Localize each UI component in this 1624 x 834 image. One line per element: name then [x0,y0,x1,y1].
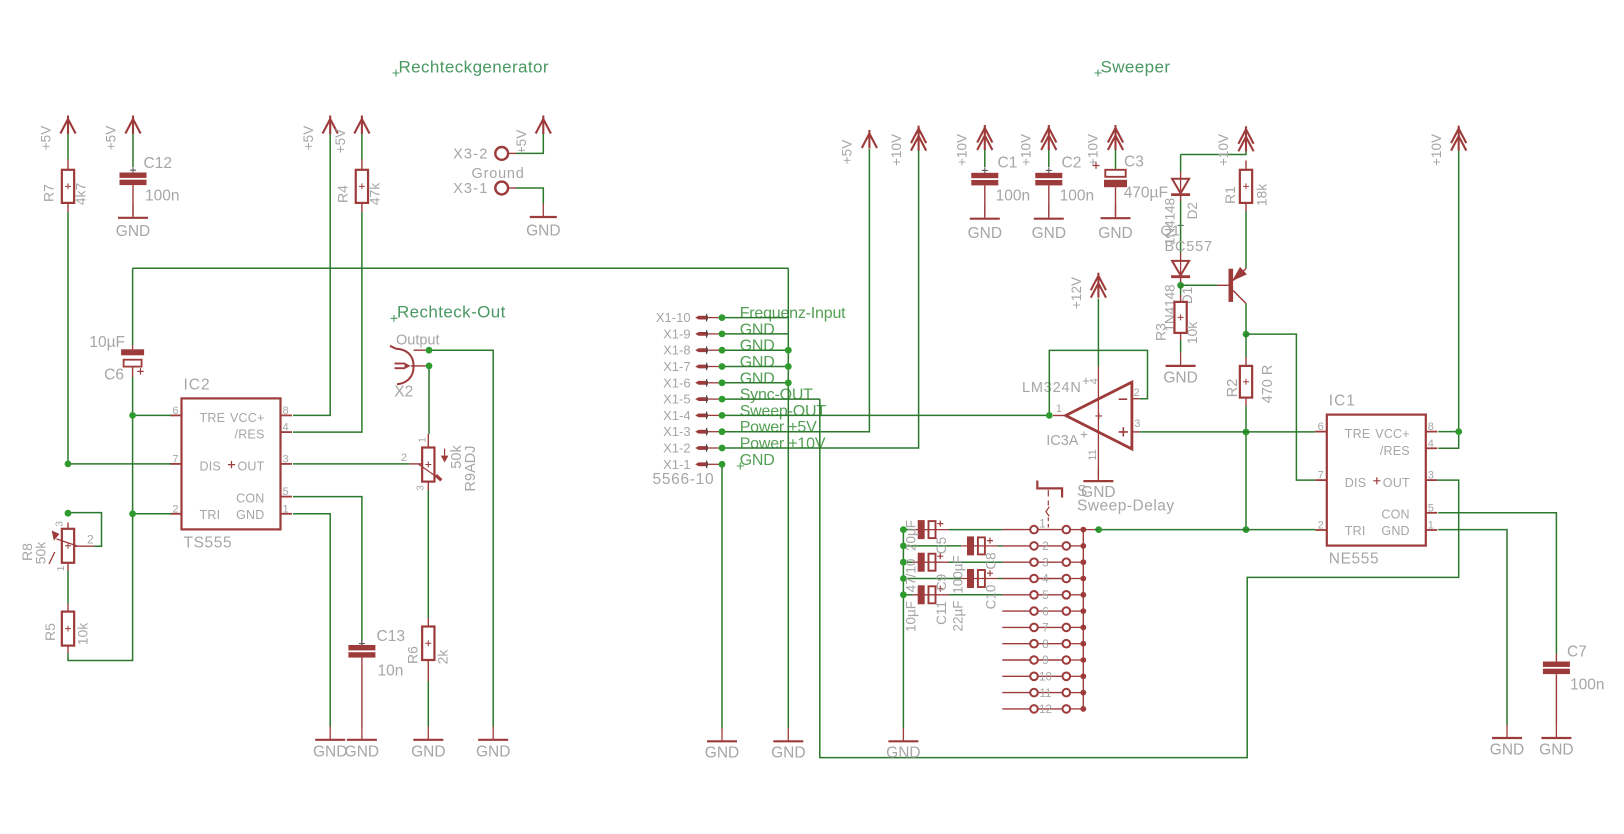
capacitor C8 body [961,545,998,547]
header pin 11R [1063,689,1071,697]
wire X1-1 GND wire [721,464,723,728]
header pin 6L [1030,607,1038,615]
wire IC2-GND wire [293,514,330,727]
wire R7 to DIS node [67,212,69,464]
header pin 9R [1063,656,1071,664]
wire D1 node to Q1 base [1181,284,1217,286]
svg-text:NE555: NE555 [1329,551,1379,568]
C6 plus mark [137,368,143,374]
header pin 10R [1063,673,1071,681]
capacitor C6 plates [121,349,144,355]
wire Sync-OUT long path [820,399,1459,757]
wire TRE-TRI vertical [132,415,134,513]
node X1-5 node [719,396,726,403]
resistor R6 body [422,627,434,661]
svg-text:8: 8 [1042,639,1048,651]
svg-text:11: 11 [1040,688,1052,700]
resistor R5 body [62,612,74,646]
svg-text:OUT: OUT [1383,476,1410,490]
svg-text:2: 2 [1134,387,1140,399]
power +10V symbol P+10V-1 [911,126,926,151]
svg-text:GND: GND [476,744,510,761]
IC IC1 pin names [1345,427,1410,538]
svg-text:10n: 10n [378,663,404,680]
svg-text:10µF: 10µF [904,601,919,632]
svg-text:7: 7 [172,453,178,465]
node X2 tip node [426,347,433,354]
node R8 wiper node [65,510,72,517]
svg-text:10: 10 [1039,672,1052,684]
ground symbol GND-X3 [542,204,544,218]
ground symbol GND-X1bus [787,728,789,742]
svg-text:5: 5 [283,486,289,498]
svg-text:10µF: 10µF [89,334,125,351]
svg-text:TS555: TS555 [184,534,233,551]
header pin 7L lead [1002,626,1030,628]
svg-text:470 R: 470 R [1260,365,1276,404]
capacitor C1 plates [971,173,998,178]
C1 pin cross [982,167,988,173]
power +10V symbol P+10V-IC1 [1451,126,1466,151]
wire R2node to IC1 pin7 [1246,334,1315,480]
opamp minus [1119,398,1128,400]
header pin 2L lead [1002,545,1030,547]
header pin 5L lead [1002,594,1030,596]
header pin 5R [1063,591,1071,599]
label cross Rechteck-Out [391,315,398,322]
node sweep node B [1243,526,1250,533]
capacitor C9 body [913,561,950,563]
header pin 8L lead [1002,643,1030,645]
header pin 5R lead [1070,594,1083,596]
ground symbol GND-C12 [132,204,134,218]
ground symbol GND-C3 [1115,205,1117,219]
header row 10 link [1038,675,1063,677]
svg-text:6: 6 [1318,421,1324,433]
C6 bottom pin [132,367,134,377]
header pin 7R [1063,624,1071,632]
power +5V symbol P+5V-5 [536,116,551,135]
power +5V symbol P+5V-2 [125,116,140,135]
resistor R8 body [62,529,74,563]
wire X2 tip to GND wire [429,350,493,727]
svg-text:GND: GND [345,744,379,761]
jumper SJ body [1037,481,1062,498]
svg-text:GND: GND [771,745,805,762]
svg-text:TRI: TRI [200,508,221,522]
ground symbol GND-R6 [427,726,429,740]
svg-text:IC2: IC2 [184,376,211,393]
D1 bottom pin [1180,278,1182,285]
connector pin X1-8 [695,348,708,352]
header row1 red lead [1083,529,1094,531]
node GND bus node X1-7 [785,363,792,370]
connector X3-1 pin [495,182,508,195]
wire RES wire [293,212,362,432]
C5 plus mark [937,521,943,527]
C9 plus mark [937,553,943,559]
svg-text:X1-2: X1-2 [663,441,690,456]
svg-text:C13: C13 [377,628,405,645]
header pin 3R lead [1070,561,1083,563]
wire X1-9 GND wire [722,333,788,335]
X2 sleeve pin [411,365,426,367]
wire R3 to GND [1180,340,1182,353]
R2 bottom pin [1245,398,1247,406]
header row 11 link [1038,692,1063,694]
svg-text:R6: R6 [405,646,421,664]
opamp pin4/11 line [1097,367,1099,479]
header pin 4R lead [1070,578,1083,580]
connector pin X1-5 [695,397,708,401]
opamp pin3 stub [1132,431,1140,433]
svg-text:20µF: 20µF [904,520,919,551]
IC IC2 pin numbers [172,405,288,515]
opamp name cross [1083,378,1089,384]
opamp des cross [1081,431,1087,437]
svg-text:GND: GND [1032,225,1066,242]
header pin 1L lead [1002,529,1030,531]
header pin 3R [1063,558,1071,566]
svg-text:3: 3 [283,453,289,465]
svg-text:GND: GND [740,370,775,387]
svg-text:22µF: 22µF [950,600,965,631]
R8 wiper arrow [49,532,78,564]
svg-text:C6: C6 [104,367,124,384]
wire D1 to R3 [1180,285,1182,295]
svg-text:C8: C8 [983,552,998,569]
svg-text:7: 7 [1318,470,1324,482]
svg-text:GND: GND [236,508,264,522]
wire cap row 1 left [903,529,912,531]
svg-text:9: 9 [1042,655,1048,667]
header pin 9L [1030,656,1038,664]
C13 bottom pin [361,658,363,727]
C7 top pin [1555,654,1557,662]
jumper SJ wiper [1046,490,1049,528]
svg-text:4: 4 [1042,574,1049,586]
svg-text:OUT: OUT [238,460,265,474]
svg-text:Power +10V: Power +10V [740,436,826,453]
ground symbol GND-opamp [1097,468,1099,482]
power +5V symbol P+5V-4 [354,116,369,135]
svg-text:R9ADJ: R9ADJ [463,446,479,492]
node TRI node [129,510,136,517]
header pin 12R lead [1070,708,1083,710]
svg-text:11: 11 [1087,449,1099,460]
IC IC2 pin stubs [170,415,292,513]
power +5V symbol P+5V-3 [323,116,338,135]
capacitor C11 body [913,594,950,596]
header pin 12L lead [1002,708,1030,710]
svg-text:TRE: TRE [1345,427,1371,441]
capacitor C10 body [961,578,998,580]
svg-text:TRE: TRE [200,411,226,425]
svg-text:2: 2 [87,533,94,547]
svg-text:C12: C12 [144,155,172,172]
connector pin X1-4 [695,414,708,418]
connector pin X1-2 [695,446,708,450]
node DIS node [65,461,72,468]
ground symbol GND-X1-1 [721,728,723,742]
svg-text:2: 2 [1318,520,1324,532]
wire VCC wire [293,134,330,415]
svg-text:X1-7: X1-7 [663,359,690,374]
C1 bottom pin [984,185,986,216]
wire +12V to opamp pin4 [1097,299,1099,367]
svg-text:100µF: 100µF [950,555,965,594]
wire cap row 4 right [998,578,1002,580]
svg-text:C1: C1 [998,155,1018,172]
header row 5 link [1038,594,1063,596]
svg-text:6: 6 [172,405,178,417]
title cross Rechteckgenerator [393,70,400,77]
header pin 2R [1063,542,1071,550]
svg-text:100n: 100n [145,188,179,205]
power +12V symbol P+12V [1091,273,1106,298]
C13 top pin [361,641,363,646]
ground symbol GND-C2 [1048,205,1050,219]
svg-text:Sync-OUT: Sync-OUT [740,387,813,404]
svg-text:1: 1 [1056,403,1062,415]
svg-text:4: 4 [283,422,289,434]
header row 1 link [1038,529,1063,531]
ground symbol GND-IC1 [1506,725,1508,739]
header pin 8L [1030,640,1038,648]
R1 bottom pin [1245,203,1247,211]
header pin 3L [1030,558,1038,566]
svg-text:VCC+: VCC+ [230,411,265,425]
node cap bus node 3 [900,559,907,566]
svg-text:D2: D2 [1185,202,1200,219]
wire cap row 4 left [903,578,961,580]
X2 tip pin [414,349,426,351]
node D1-R3 node [1177,282,1184,289]
R2 top pin [1245,358,1247,366]
connector X3-2 pin [495,147,508,160]
svg-text:BC557: BC557 [1165,239,1213,255]
header pin 10R lead [1070,675,1083,677]
svg-text:12: 12 [1039,704,1052,716]
svg-text:2k: 2k [435,649,451,665]
header pin 12L [1030,705,1038,713]
svg-text:C11: C11 [934,601,949,625]
svg-text:C3: C3 [1124,154,1144,171]
wire R9ADJ to R6 [427,490,429,618]
wire Sweep-OUT long wire [722,414,1049,416]
connector pin X1-10 [695,316,708,320]
svg-text:GND: GND [886,745,920,762]
svg-text:47/10: 47/10 [904,559,919,593]
svg-text:8: 8 [283,405,289,417]
power +10V symbol P+10V-C3 [1108,125,1123,150]
op IC IC2 body [182,398,281,529]
wire X2 sleeve to R9ADJ [428,366,430,434]
wire R7 top lead [67,134,69,160]
wire R6 to GND [427,681,429,727]
svg-text:+5V: +5V [38,126,53,150]
svg-text:+10V: +10V [955,134,970,166]
svg-text:4: 4 [1428,438,1434,450]
svg-text:C2: C2 [1062,155,1082,172]
svg-text:5: 5 [1042,590,1048,602]
capacitor C5 body [913,529,950,531]
wire opamp out column [1245,432,1247,530]
wire Sync-OUT wire from X1-5 [722,398,820,400]
wire R8 wiper to DIS column [68,513,102,547]
svg-text:1: 1 [1039,518,1045,530]
svg-text:X1-5: X1-5 [663,392,690,407]
wire R2 top lead [1245,334,1247,357]
header row 8 link [1038,643,1063,645]
wire DIS wire [68,463,171,465]
IC IC1 pin stubs [1315,432,1437,530]
wire C1 top lead [984,150,986,167]
node opamp out node [1046,412,1053,419]
resistor R3 body [1174,302,1186,333]
node collector/R2 node [1243,331,1250,338]
node cap bus node 4 [900,575,907,582]
svg-text:DIS: DIS [1345,476,1366,490]
svg-text:GND: GND [740,452,775,469]
svg-text:2: 2 [401,452,407,464]
diode D2 body [1180,179,1182,195]
ground symbol GND-R3 [1180,352,1182,366]
header pin 9L lead [1002,659,1030,661]
wire IC1 pin4 wire [1438,435,1458,448]
wire IC1 pin8 wire [1438,431,1458,433]
wire cap bus vertical [902,530,904,729]
svg-text:+5V: +5V [514,130,529,154]
resistor R1 body [1240,170,1252,203]
svg-text:R4: R4 [335,185,351,203]
C3 bottom pin [1115,187,1117,216]
IC IC1 origin cross [1373,477,1380,484]
svg-text:Frequenz-Input: Frequenz-Input [740,305,846,322]
svg-text:+10V: +10V [1019,134,1034,166]
svg-text:18k: 18k [1254,183,1270,207]
D1 top pin [1180,253,1182,261]
node IC1 pin8 node [1455,428,1462,435]
header pin 2R lead [1070,545,1083,547]
header row 9 link [1038,659,1063,661]
svg-text:47k: 47k [367,182,383,206]
svg-text:Output: Output [396,333,440,349]
svg-text:DIS: DIS [200,460,221,474]
R4 top pin [361,160,363,170]
wire cap row 2 right [998,545,1002,547]
svg-text:X1-4: X1-4 [663,408,690,423]
svg-text:5566-10: 5566-10 [653,471,715,488]
capacitor C12 plates [120,173,147,178]
node X2 sleeve node [426,363,433,370]
header pin 1R [1063,526,1071,534]
svg-text:GND: GND [740,338,775,355]
svg-text:X1-9: X1-9 [663,326,690,341]
node header row1 node [1095,526,1102,533]
wire Frequenz-Input long wire [133,267,789,269]
header row 6 link [1038,610,1063,612]
svg-text:3: 3 [416,485,427,491]
op-amp IC3A body [1066,382,1132,449]
node X1-4 node [719,412,726,419]
wire D2 top wire [1180,155,1182,172]
svg-text:R2: R2 [1225,379,1241,398]
C2 bottom pin [1048,185,1050,216]
wire Power+10V wire [722,151,919,449]
wire IC1 +10V wire [1458,151,1460,432]
header pin 9R lead [1070,659,1083,661]
power +5V symbol P+5V-1 [60,116,75,135]
wire cap row 3 right [949,561,1002,563]
opamp pin1 stub [1053,415,1066,417]
svg-text:C10: C10 [983,585,998,610]
header pin 1L [1030,526,1038,534]
svg-text:Power +5V: Power +5V [740,419,817,436]
header pin 11L lead [1002,692,1030,694]
header row 3 link [1038,561,1063,563]
R3 top pin [1180,295,1182,302]
wire C2 top lead [1048,150,1050,167]
wire X1-6 GND wire [722,382,788,384]
svg-text:100n: 100n [996,188,1030,205]
svg-text:6: 6 [1042,606,1048,618]
svg-text:+10V: +10V [1216,134,1231,166]
svg-text:3: 3 [53,521,65,527]
D2-D1 link top [1180,196,1182,201]
ground symbol GND-C7 [1555,725,1557,739]
capacitor C13 plates [348,645,375,650]
header row 12 link [1038,708,1063,710]
svg-text:X2: X2 [394,384,413,401]
svg-text:3: 3 [1042,557,1048,569]
wire D2/R1 +10V wire [1181,151,1246,155]
connector pin X1-9 [695,332,708,336]
wire OUT wire [293,463,409,465]
svg-text:50k: 50k [33,541,49,565]
R9ADJ top pin [427,434,429,448]
R8 bottom pin [67,563,69,570]
wire R2 bottom lead [1245,406,1247,432]
wire cap row 5 left [903,594,912,596]
C8 plus mark [987,538,993,544]
svg-text:X1-3: X1-3 [663,424,690,439]
svg-text:10k: 10k [75,622,91,646]
header pin 8R [1063,640,1071,648]
svg-text:X1-1: X1-1 [663,457,690,472]
X3-2 pin lead [508,152,516,154]
wire R1 to Q1 emitter [1245,211,1247,269]
wire X3-1 to GND [516,188,543,205]
svg-text:GND: GND [705,745,739,762]
header pin 7R lead [1070,626,1083,628]
R3 bottom pin [1180,333,1182,340]
IC IC1 pin numbers [1318,421,1434,531]
C6 top pin [132,345,134,349]
svg-text:Sweep-OUT: Sweep-OUT [740,403,827,420]
svg-text:2: 2 [172,503,178,515]
svg-text:+5V: +5V [333,129,348,153]
IC IC2 pin names [200,411,265,522]
wire X1-10 Frequenz wire [722,317,788,319]
R8 top pin [67,523,69,529]
node X1-2 node [719,445,726,452]
svg-text:R5: R5 [42,623,58,641]
wire Power+5V wire [722,149,869,432]
svg-text:GND: GND [740,321,775,338]
node X1-7 node [719,363,726,370]
header pin 1R lead [1070,529,1083,531]
